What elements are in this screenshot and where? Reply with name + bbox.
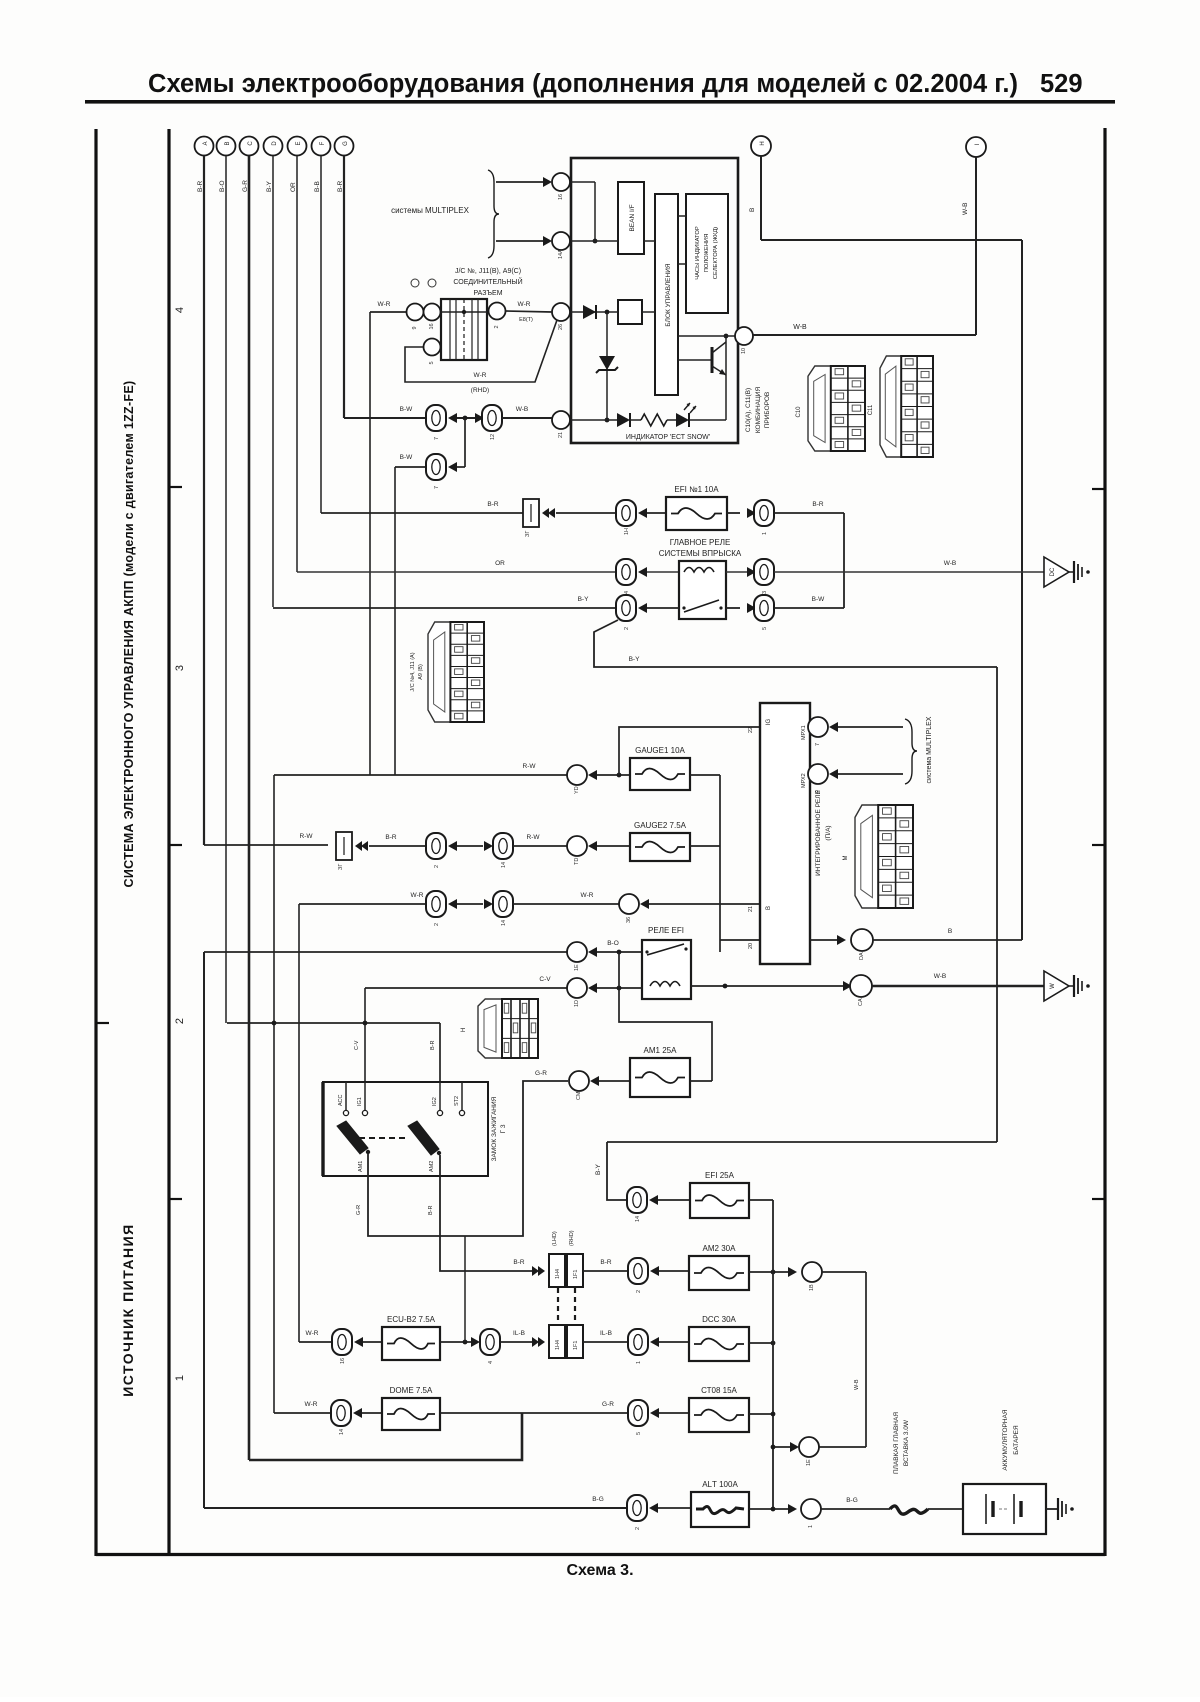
svg-text:R-W: R-W — [523, 763, 537, 770]
svg-text:W-R: W-R — [306, 1330, 319, 1337]
wire OR terminal E to relay coil row — [296, 156, 298, 573]
svg-text:B: B — [749, 208, 756, 212]
svg-text:SТ2: SТ2 — [454, 1096, 460, 1106]
svg-text:2: 2 — [636, 1290, 642, 1293]
svg-text:B-Y: B-Y — [595, 1164, 602, 1176]
svg-text:РЕЛЕ ЕFI: РЕЛЕ ЕFI — [648, 926, 684, 935]
battery — [963, 1484, 1046, 1534]
main fusible link 2.0W — [890, 1506, 928, 1514]
wire W-R into junction connector — [370, 301, 441, 312]
svg-text:W-B: W-B — [793, 324, 807, 331]
transistor Q1 — [678, 336, 726, 420]
svg-text:B-R: B-R — [487, 501, 499, 508]
switch rotor contact AM2 — [408, 1121, 441, 1172]
connector pair on B-W row — [426, 405, 446, 440]
fuse EFI No.1 10A — [666, 485, 727, 530]
svg-text:МРХ1: МРХ1 — [801, 725, 807, 740]
fusible link ALT 100A — [691, 1480, 749, 1527]
svg-text:TD: TD — [574, 858, 580, 865]
wire W-R row to integrated relay pin 21 — [299, 892, 426, 904]
wire W-R from J/C to cluster pin 26 — [505, 301, 552, 323]
svg-text:Г 3: Г 3 — [500, 1124, 507, 1133]
junction connector J/C block — [441, 299, 487, 360]
link from AM1 25A fuse up to relay coil row — [619, 952, 712, 1081]
svg-text:16: 16 — [558, 194, 564, 200]
svg-text:ИСТОЧНИК ПИТАНИЯ: ИСТОЧНИК ПИТАНИЯ — [120, 1223, 136, 1397]
svg-text:7: 7 — [434, 437, 440, 440]
fuse AM1 25A — [630, 1046, 690, 1097]
svg-text:YD: YD — [574, 786, 580, 794]
cluster pin 10 wire — [678, 335, 735, 337]
body connector pair (LHD) — [549, 1254, 583, 1287]
svg-text:B-R: B-R — [385, 834, 397, 841]
wire B-Y branch from relay switch row down to EFI 25A fuse — [594, 620, 997, 667]
wire G-R terminal C down (thick) to bottom — [248, 156, 251, 1461]
connector terminal G (to ECM) — [335, 137, 354, 156]
svg-text:1F1: 1F1 — [573, 1270, 579, 1279]
wire B-G row to ALT fuse — [204, 1496, 626, 1508]
svg-text:14: 14 — [635, 1216, 641, 1222]
svg-text:(RHD): (RHD) — [471, 387, 489, 394]
svg-text:ЕFI 25А: ЕFI 25А — [705, 1171, 735, 1180]
svg-text:9: 9 — [815, 790, 821, 793]
svg-text:системы MULTIPLEX: системы MULTIPLEX — [391, 206, 469, 215]
wire B-R row to EFI No.1 fuse — [321, 501, 524, 513]
svg-text:B-W: B-W — [400, 454, 414, 461]
wire B-R terminal A down to GAUGE2 row — [203, 156, 205, 846]
main injection system relay box — [679, 561, 726, 619]
svg-text:РАЗЪЕМ: РАЗЪЕМ — [473, 290, 502, 297]
svg-text:14: 14 — [339, 1429, 345, 1435]
wire from W-R row down to ECU-B2 row — [298, 904, 300, 1342]
junction node indicator branch — [605, 418, 610, 423]
connector drawing M — [843, 805, 913, 908]
svg-text:1: 1 — [808, 1525, 814, 1528]
junction connector pin circles — [407, 304, 424, 330]
clock / selector position indicator sub-block — [686, 194, 728, 313]
svg-text:12: 12 — [490, 434, 496, 440]
dashed link between connector pairs — [557, 1288, 559, 1325]
diagram frame right border — [1103, 128, 1106, 1556]
svg-text:3: 3 — [762, 591, 768, 594]
wire B-Y terminal D to relay switch row — [272, 156, 274, 608]
svg-text:R-W: R-W — [527, 834, 541, 841]
svg-text:26: 26 — [558, 324, 564, 330]
svg-text:W-R: W-R — [474, 372, 487, 379]
svg-text:БАТАРЕЯ: БАТАРЕЯ — [1013, 1425, 1020, 1455]
MPX2 pin circle — [801, 764, 828, 793]
wire W-R bus from junction connector down to GAUGE1 row — [369, 312, 371, 775]
svg-text:(LHD): (LHD) — [552, 1231, 558, 1246]
svg-text:Схемы электрооборудования (доп: Схемы электрооборудования (дополнения дл… — [148, 70, 1018, 98]
svg-text:CA: CA — [858, 998, 864, 1006]
svg-text:DA: DA — [859, 952, 865, 960]
connector terminal H — [751, 136, 771, 156]
svg-text:B-W: B-W — [400, 406, 414, 413]
svg-text:16: 16 — [340, 1358, 346, 1364]
svg-text:10: 10 — [741, 348, 747, 354]
svg-text:W-R: W-R — [518, 301, 531, 308]
svg-text:W-R: W-R — [378, 301, 391, 308]
fuse ECU-B2 7.5A — [382, 1315, 440, 1360]
svg-text:W-B: W-B — [944, 560, 957, 567]
svg-text:B-O: B-O — [219, 180, 226, 192]
cluster pin 26 wire with diode — [570, 305, 655, 319]
svg-text:1H: 1H — [624, 528, 630, 535]
svg-text:2: 2 — [624, 627, 630, 630]
internal bus of junction connector — [441, 310, 487, 314]
svg-text:BEAN I/F: BEAN I/F — [629, 204, 636, 231]
svg-text:ПРИБОРОВ: ПРИБОРОВ — [764, 392, 771, 429]
wire B-O terminal B down to IG row — [225, 156, 227, 1024]
svg-text:1: 1 — [636, 1361, 642, 1364]
svg-text:Е8(Т): Е8(Т) — [519, 317, 533, 323]
svg-text:ПОЛОЖЕНИЯ: ПОЛОЖЕНИЯ — [704, 234, 710, 273]
svg-text:1: 1 — [762, 532, 768, 535]
diagram frame inner vertical rule — [167, 129, 170, 1556]
branch down from B-W row — [464, 418, 466, 467]
svg-text:16: 16 — [429, 323, 435, 329]
wire B-R terminal G to cluster pin row — [343, 156, 345, 419]
wire bus B+ from relay-EFI row down to ALT row — [203, 952, 205, 1508]
svg-text:DC: DC — [1050, 567, 1056, 576]
junction node on GAUGE1 row — [617, 773, 622, 778]
svg-text:ИНДИКАТОР 'ЕСТ SNOW': ИНДИКАТОР 'ЕСТ SNOW' — [626, 434, 710, 441]
svg-text:М: М — [843, 856, 849, 861]
svg-text:АККУМУЛЯТОРНАЯ: АККУМУЛЯТОРНАЯ — [1002, 1409, 1009, 1470]
svg-text:2: 2 — [434, 923, 440, 926]
junction node collector — [724, 334, 729, 339]
wire from B-W row down to GAUGE1 row — [394, 467, 396, 775]
wire R-W row to GAUGE2 fuse — [204, 833, 328, 845]
wire to fusible link row — [822, 1272, 866, 1447]
svg-text:1Н4: 1Н4 — [555, 1269, 561, 1279]
noise filter on R-W wire — [336, 832, 352, 870]
integrated relay output wire B — [810, 935, 846, 945]
wire B-Y row to main relay switch — [273, 596, 616, 608]
ignition switch label — [491, 1096, 507, 1161]
svg-text:7: 7 — [815, 743, 821, 746]
connector terminal C (to ECM) — [240, 137, 259, 156]
wire into integrated relay pin 20 — [720, 939, 759, 941]
switch contact stubs ACC IG1 IG2 ST2 — [338, 1082, 349, 1116]
cluster pin B wire into BEAN I/F and control unit — [570, 240, 655, 242]
grid zone numbers 4 3 2 1 — [174, 307, 186, 1381]
connector terminal I — [966, 137, 986, 157]
svg-text:W-B: W-B — [962, 202, 969, 215]
noise filter on B-R wire — [523, 499, 539, 537]
svg-text:B-B: B-B — [314, 181, 321, 192]
MULTIPLEX arrows into cluster pins A and B — [496, 177, 552, 187]
svg-text:W: W — [1050, 983, 1056, 989]
svg-text:7: 7 — [434, 486, 440, 489]
wire down right side to integrated relay output — [1021, 240, 1023, 940]
zener diode branch down — [596, 312, 618, 420]
connector drawing C11 — [868, 356, 933, 457]
svg-text:OR: OR — [290, 182, 297, 192]
svg-text:529: 529 — [1040, 70, 1083, 98]
svg-text:IL-B: IL-B — [600, 1330, 612, 1337]
wire B-R from EFI No.1 fuse to relay output — [774, 501, 844, 608]
interface sub-block — [618, 300, 642, 324]
connector terminal D (to ECM) — [264, 137, 283, 156]
svg-text:система MULTIPLEX: система MULTIPLEX — [926, 716, 933, 783]
page title — [85, 70, 1115, 104]
svg-text:B: B — [948, 928, 952, 935]
svg-text:20: 20 — [748, 943, 754, 949]
battery label — [1002, 1409, 1020, 1470]
svg-text:СМ: СМ — [576, 1091, 582, 1100]
wire B-O row to EFI relay switch — [204, 940, 619, 952]
grid tick marks on right border — [1092, 489, 1105, 1199]
wire B-R terminal F to EFI No.1 fuse row — [320, 156, 322, 514]
svg-text:B: B — [766, 906, 772, 910]
connector drawing C10 — [796, 366, 865, 451]
wire from GAUGE1 row to integrated relay pin 22 — [619, 727, 759, 775]
ground DC — [1044, 557, 1090, 587]
svg-text:DОМЕ 7.5А: DОМЕ 7.5А — [390, 1386, 433, 1395]
svg-text:ЗГ: ЗГ — [525, 531, 531, 537]
svg-text:14: 14 — [501, 920, 507, 926]
wire W-R row to ECU-B2 fuse — [299, 1330, 332, 1342]
battery ground — [1046, 1498, 1074, 1520]
svg-text:ГЛАВНОЕ РЕЛЕ: ГЛАВНОЕ РЕЛЕ — [670, 538, 731, 547]
connector terminal B (to ECM) — [217, 137, 236, 156]
svg-text:B-R: B-R — [428, 1206, 434, 1216]
svg-text:1D: 1D — [574, 1000, 580, 1007]
svg-text:C-V: C-V — [354, 1040, 360, 1050]
svg-text:2: 2 — [434, 865, 440, 868]
svg-text:АМ1 25А: АМ1 25А — [644, 1046, 678, 1055]
svg-text:G: G — [343, 141, 349, 146]
svg-text:СИСТЕМА ЭЛЕКТРОННОГО УПРАВЛЕНИ: СИСТЕМА ЭЛЕКТРОННОГО УПРАВЛЕНИЯ АКПП (мо… — [122, 381, 136, 888]
MULTIPLEX brace — [488, 170, 499, 258]
cluster pin circles — [552, 173, 570, 200]
combination meter block outline — [571, 158, 738, 443]
svg-text:1E: 1E — [574, 964, 580, 971]
fuse GAUGE2 7.5A — [630, 821, 690, 861]
cluster pin A wire to BEAN I/F — [570, 182, 595, 241]
svg-text:АLТ 100А: АLТ 100А — [702, 1480, 738, 1489]
svg-text:АМ2 30А: АМ2 30А — [703, 1244, 737, 1253]
wire W-B from terminal I to cluster pin 10 — [753, 157, 976, 335]
svg-text:С10: С10 — [796, 406, 802, 418]
wire B-R from AM2 contact — [428, 1155, 532, 1271]
fuse DCC 30A — [689, 1315, 749, 1361]
svg-text:1: 1 — [174, 1375, 186, 1381]
svg-text:4: 4 — [174, 307, 186, 313]
svg-text:ЗАМОК ЗАЖИГАНИЯ: ЗАМОК ЗАЖИГАНИЯ — [491, 1096, 498, 1161]
svg-text:C-V: C-V — [539, 976, 551, 983]
svg-text:G-R: G-R — [356, 1205, 362, 1215]
svg-text:БЛОК УПРАВЛЕНИЯ: БЛОК УПРАВЛЕНИЯ — [665, 263, 672, 326]
integrated relay block — [760, 703, 810, 964]
svg-text:ЗГ: ЗГ — [338, 864, 344, 870]
svg-text:3: 3 — [174, 665, 186, 671]
svg-text:4: 4 — [488, 1361, 494, 1364]
svg-text:36: 36 — [626, 917, 632, 923]
svg-text:ЧАСЫ ИНДИКАТОР: ЧАСЫ ИНДИКАТОР — [695, 226, 701, 280]
svg-text:(П/А): (П/А) — [825, 825, 832, 840]
wire W-R (RHD) loop below J/C — [405, 320, 557, 394]
svg-text:5: 5 — [636, 1432, 642, 1435]
svg-text:14A: 14A — [558, 249, 564, 259]
LED arrows — [684, 403, 696, 413]
svg-text:1F1: 1F1 — [573, 1341, 579, 1350]
svg-text:B-W: B-W — [812, 596, 826, 603]
svg-text:E: E — [296, 141, 302, 145]
junction node pin 26 net — [605, 310, 610, 315]
connector terminal E (to ECM) — [288, 137, 307, 156]
svg-text:1Е: 1Е — [806, 1459, 812, 1466]
wire R-W row to GAUGE1 fuse — [274, 763, 567, 775]
connector drawing J/C J11 A9 — [428, 622, 484, 722]
fuse CT08 15A — [689, 1386, 749, 1432]
svg-text:J/C №4, J11 (А): J/C №4, J11 (А) — [410, 652, 416, 691]
svg-text:B-R: B-R — [513, 1259, 525, 1266]
svg-text:OR: OR — [495, 560, 505, 567]
svg-text:B-G: B-G — [846, 1497, 858, 1504]
svg-text:B-R: B-R — [812, 501, 824, 508]
svg-text:С11: С11 — [868, 404, 874, 415]
svg-text:G-R: G-R — [602, 1401, 614, 1408]
svg-text:B-O: B-O — [607, 940, 619, 947]
svg-text:B-Y: B-Y — [578, 596, 590, 603]
connector drawing near ignition switch — [461, 999, 538, 1058]
svg-text:1Н4: 1Н4 — [555, 1340, 561, 1350]
fuse AM2 30A — [689, 1244, 749, 1290]
wire IG feed row — [227, 1021, 440, 1026]
svg-text:B-Y: B-Y — [629, 656, 641, 663]
svg-text:W-B: W-B — [516, 406, 529, 413]
svg-text:W-B: W-B — [934, 973, 947, 980]
svg-text:H: H — [760, 141, 766, 145]
small marker circles above J/C pins — [411, 279, 419, 287]
svg-text:W-R: W-R — [305, 1401, 318, 1408]
wire W-R row to DOME fuse — [274, 1401, 332, 1413]
connector terminal F (to ECM) — [312, 137, 331, 156]
vertical link GAUGE1 / GAUGE2 / W-R / relay-EFI rows — [719, 775, 721, 952]
body connector pair 2 — [549, 1325, 583, 1358]
svg-text:СИСТЕМЫ ВПРЫСКА: СИСТЕМЫ ВПРЫСКА — [659, 549, 742, 558]
svg-text:5: 5 — [762, 627, 768, 630]
MPX1 pin circle — [801, 717, 828, 746]
svg-text:B-G: B-G — [592, 1496, 604, 1503]
svg-text:С10(А), С11(В): С10(А), С11(В) — [745, 388, 752, 432]
svg-text:IG2: IG2 — [432, 1097, 438, 1106]
svg-text:B-Y: B-Y — [266, 181, 273, 193]
grid tick marks on inner rule — [96, 487, 182, 1199]
svg-text:ЕFI №1 10А: ЕFI №1 10А — [674, 485, 719, 494]
link wires between control unit and indicator — [678, 216, 686, 264]
svg-text:4: 4 — [624, 591, 630, 594]
fuse DOME 7.5A — [382, 1386, 440, 1430]
svg-text:R-W: R-W — [300, 833, 314, 840]
wire G-R from AM1 to AM1 25A fuse — [356, 1070, 568, 1236]
connector on EFI fuse row — [616, 500, 636, 535]
wire OR row to main relay coil — [297, 560, 616, 572]
wire C-V row to EFI relay coil — [365, 976, 567, 988]
wire from C-V row down to ignition switch IG1 — [364, 988, 366, 1082]
svg-text:D: D — [272, 141, 278, 146]
MULTIPLEX brace right — [905, 719, 917, 784]
svg-text:ПЛАВКАЯ ГЛАВНАЯ: ПЛАВКАЯ ГЛАВНАЯ — [893, 1412, 900, 1474]
relay coil output wire to ground — [691, 981, 852, 991]
svg-text:СЕЛЕКТОРА (ЖКД): СЕЛЕКТОРА (ЖКД) — [713, 227, 719, 279]
wire IG2 branch down into switch — [439, 1023, 441, 1082]
ignition switch box — [323, 1082, 488, 1176]
svg-text:C: C — [248, 141, 254, 146]
svg-text:GAUGE1 10А: GAUGE1 10А — [635, 746, 685, 755]
svg-text:21: 21 — [748, 906, 754, 912]
svg-text:J/C №, J11(В), А9(С): J/C №, J11(В), А9(С) — [455, 268, 521, 275]
junction node on pin B wire — [593, 239, 598, 244]
svg-text:2: 2 — [174, 1018, 186, 1024]
ECT SNOW indicator chain: diode, resistor, LED — [570, 413, 726, 427]
svg-text:2: 2 — [635, 1527, 641, 1530]
svg-text:DСС 30А: DСС 30А — [702, 1315, 736, 1324]
main relay coil output wire to ground — [726, 567, 756, 577]
wire B from terminal H — [761, 156, 1022, 240]
combination meter designation label — [745, 387, 771, 434]
svg-text:G-R: G-R — [535, 1070, 547, 1077]
wire bus IG from GAUGE1 row down to DOME row — [273, 775, 275, 1413]
junction node below EFI relay row — [617, 950, 622, 955]
BEAN I/F sub-block — [618, 182, 644, 254]
svg-text:W-R: W-R — [411, 892, 424, 899]
svg-text:ВСТАВКА 3.0W: ВСТАВКА 3.0W — [903, 1419, 910, 1466]
ground W — [1044, 971, 1090, 1001]
svg-text:(RHD): (RHD) — [569, 1230, 575, 1246]
svg-text:F: F — [320, 141, 326, 145]
relay EFI box — [642, 940, 691, 999]
svg-text:АМ2: АМ2 — [429, 1161, 435, 1172]
main relay label — [659, 538, 742, 558]
switch rotor contact AM1 — [337, 1121, 370, 1172]
svg-text:IG1: IG1 — [357, 1097, 363, 1106]
J/C designation label — [453, 268, 522, 297]
svg-text:АМ1: АМ1 — [358, 1161, 364, 1172]
svg-text:A: A — [203, 141, 209, 145]
svg-text:ЕСU-В2 7.5А: ЕСU-В2 7.5А — [387, 1315, 436, 1324]
svg-text:АСС: АСС — [338, 1094, 344, 1106]
fuse EFI 25A — [690, 1171, 749, 1218]
mechanical link dashed — [349, 1137, 406, 1139]
svg-text:Н: Н — [461, 1028, 467, 1032]
svg-text:GAUGE2 7.5А: GAUGE2 7.5А — [634, 821, 687, 830]
svg-text:Схема 3.: Схема 3. — [566, 1562, 633, 1579]
diagram frame left border — [94, 129, 97, 1556]
svg-text:КОМБИНАЦИЯ: КОМБИНАЦИЯ — [755, 387, 762, 434]
svg-text:W-B: W-B — [854, 1379, 860, 1390]
svg-text:2: 2 — [494, 325, 500, 328]
fuse GAUGE1 10A — [630, 746, 690, 790]
integrated relay label — [815, 789, 832, 875]
thick G-R feed joining row — [249, 1413, 522, 1460]
svg-text:СОЕДИНИТЕЛЬНЫЙ: СОЕДИНИТЕЛЬНЫЙ — [453, 277, 522, 286]
svg-text:W-R: W-R — [581, 892, 594, 899]
second B-W row (y=467) — [395, 454, 426, 467]
diagram frame bottom border — [96, 1553, 1105, 1556]
svg-text:B-R: B-R — [430, 1041, 436, 1051]
svg-text:9: 9 — [412, 326, 418, 329]
svg-text:IG: IG — [766, 719, 772, 726]
svg-text:А9 (В): А9 (В) — [418, 664, 424, 680]
svg-text:14: 14 — [501, 862, 507, 868]
control unit sub-block — [655, 194, 678, 395]
svg-text:IL-B: IL-B — [513, 1330, 525, 1337]
svg-text:22: 22 — [748, 727, 754, 733]
